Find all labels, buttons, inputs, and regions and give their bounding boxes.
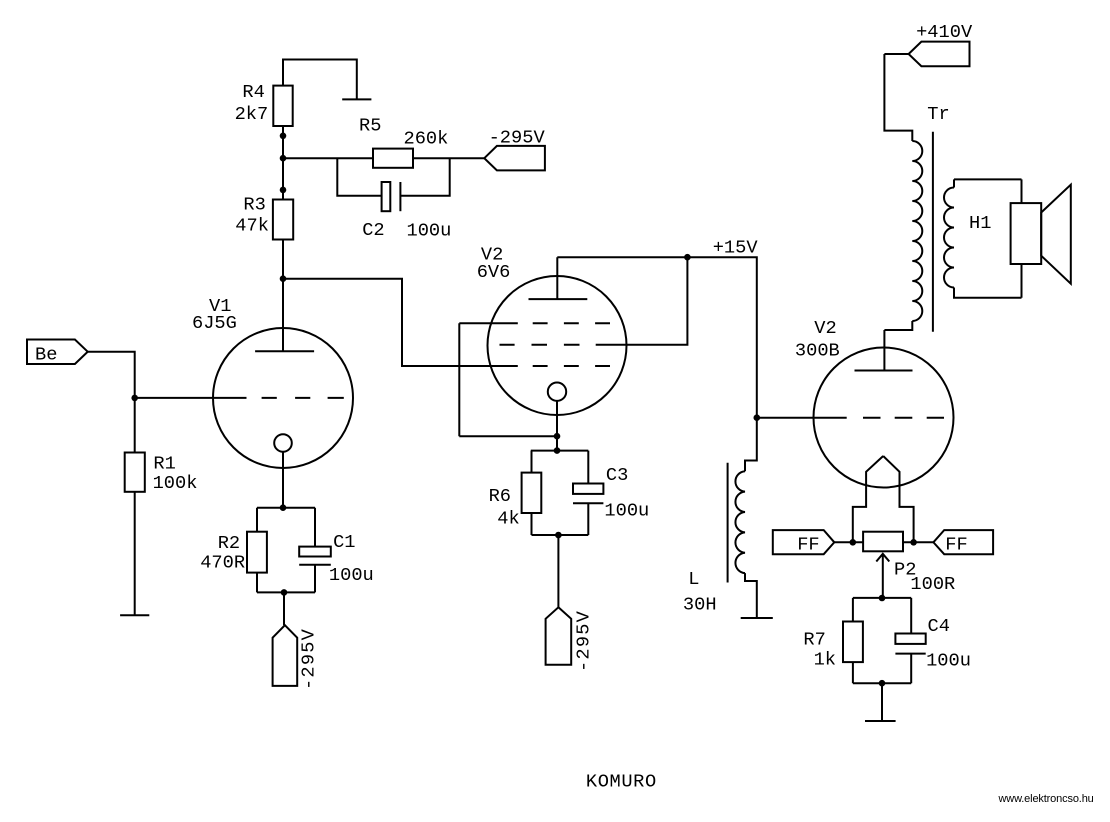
svg-text:30H: 30H [683,594,717,616]
svg-text:C1: C1 [333,531,355,553]
svg-text:www.elektroncso.hu: www.elektroncso.hu [998,793,1094,805]
svg-text:+15V: +15V [713,236,759,258]
svg-text:100R: 100R [910,573,955,595]
svg-text:H1: H1 [969,212,991,234]
svg-text:100k: 100k [153,472,198,494]
svg-text:R7: R7 [803,628,825,650]
svg-text:260k: 260k [404,128,449,150]
svg-text:Be: Be [35,344,57,366]
svg-text:FF: FF [797,534,819,556]
svg-text:470R: 470R [200,552,245,574]
svg-text:R5: R5 [359,115,381,137]
svg-text:FF: FF [945,534,967,556]
svg-text:47k: 47k [235,215,269,237]
svg-text:C3: C3 [606,464,628,486]
svg-text:R3: R3 [243,194,265,216]
svg-text:-295V: -295V [572,610,594,672]
svg-text:2k7: 2k7 [235,103,269,125]
svg-text:C2: C2 [362,219,384,241]
svg-text:R4: R4 [242,81,264,103]
svg-text:-295V: -295V [298,628,320,690]
svg-text:L: L [688,568,699,590]
svg-text:R1: R1 [153,452,175,474]
svg-text:Tr: Tr [927,103,949,125]
svg-text:100u: 100u [407,220,452,242]
svg-text:6J5G: 6J5G [192,312,237,334]
svg-text:-295V: -295V [489,127,546,149]
svg-text:V2: V2 [814,317,836,339]
svg-text:6V6: 6V6 [477,261,511,283]
svg-text:KOMURO: KOMURO [586,770,657,792]
svg-text:100u: 100u [926,650,971,672]
svg-text:300B: 300B [795,340,840,362]
svg-text:R6: R6 [489,485,511,507]
svg-text:C4: C4 [928,615,950,637]
svg-text:4k: 4k [497,507,519,529]
svg-text:100u: 100u [604,499,649,521]
svg-text:1k: 1k [814,649,836,671]
svg-text:+410V: +410V [916,21,973,43]
svg-text:R2: R2 [218,532,240,554]
svg-text:100u: 100u [329,564,374,586]
